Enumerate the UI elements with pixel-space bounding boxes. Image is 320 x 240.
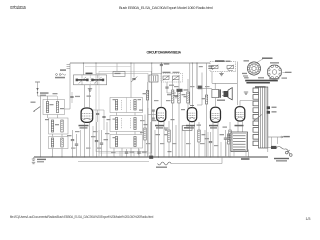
valve V2 IF amplifier (157, 108, 166, 122)
label V3 (186, 125, 195, 129)
misc value labels 2 (45, 96, 227, 153)
smoothing choke / dropper block (231, 132, 248, 152)
resistor R13 (178, 79, 186, 157)
variable capacitor VC1 (76, 75, 89, 85)
wire secondary top rail (85, 65, 131, 67)
label TO AERIAL line (257, 58, 273, 63)
resistor R14 (184, 79, 190, 110)
transformer tap wire (254, 115, 262, 121)
capacitor C33 (100, 130, 108, 157)
capacitor C10 on AVC line (160, 63, 170, 74)
label V5 (235, 125, 244, 127)
capacitor C12 (199, 66, 203, 67)
valve base diagram B1 (247, 62, 261, 76)
valve V1 ECH35 frequency changer (81, 108, 93, 122)
oscillator coil box L6/L7 (110, 116, 143, 132)
wire HT output (268, 136, 290, 152)
capacitor C31 (75, 134, 78, 157)
valve V4 output pentode (211, 107, 221, 122)
wave-change switch S1 (31, 102, 41, 112)
loudspeaker LS1 (222, 88, 232, 100)
output transformer T2 (212, 89, 221, 97)
wire V1 pins (85, 85, 90, 157)
blob R16 (177, 89, 189, 92)
wire volume to output stage (197, 62, 237, 106)
resistor R20 (140, 115, 146, 158)
misc value labels (71, 86, 219, 153)
valve V3 detector/AVC (187, 108, 196, 122)
wire extra verticals (81, 122, 247, 157)
label V4 (209, 125, 218, 129)
screening box around oscillator coils (96, 71, 151, 153)
label V1 (79, 125, 89, 129)
valve V5 rectifier (235, 107, 245, 121)
wire V4 pins (213, 98, 218, 157)
antenna input A1 (35, 82, 49, 96)
wire AVC rail (152, 63, 203, 105)
capacitor C16 (53, 92, 81, 103)
dial lamp connectors P1 P2 (267, 106, 277, 113)
resistor R22 (198, 122, 206, 157)
capacitor C37 (205, 132, 213, 157)
wire coil box returns (48, 115, 63, 158)
wire gang feeds (83, 63, 96, 89)
caption under base diagrams (244, 77, 287, 87)
label L2 S9 (241, 158, 250, 160)
wire V5 pins (238, 101, 259, 133)
capacitor C34 (125, 149, 134, 157)
volume control dashed box (208, 60, 235, 71)
schematic title CIRCUIT DIAGRAM 6B13A (147, 50, 182, 54)
label V2 (155, 125, 164, 129)
resistor R24 (227, 134, 229, 157)
resistor R21 (164, 121, 170, 157)
aerial socket / fuse F1 (55, 74, 66, 79)
mains switch blob on bus (149, 156, 159, 159)
mains input symbol (32, 157, 46, 164)
mains flex and plug (277, 147, 293, 157)
capacitor C14 (93, 110, 106, 130)
label speaker (217, 100, 225, 101)
valve base diagram B2 (268, 65, 282, 79)
trimmer block in screen box (113, 63, 137, 82)
tuning gang dashed box VC1/VC2 (74, 73, 107, 85)
mains transformer T1 core (259, 87, 268, 148)
wire chassis bus (34, 156, 268, 158)
resistor R23 (229, 122, 231, 157)
capacitor C38 (220, 130, 228, 157)
wire HT+ top bus (70, 62, 210, 64)
aerial coil box L5 (49, 137, 69, 149)
aerial terminal ticks (60, 65, 70, 71)
ground symbols (88, 89, 248, 131)
wire V2 pins (148, 63, 164, 157)
potentiometer VR1 (212, 65, 219, 70)
svg-text:CIRCUIT DIAGRAM 6B13A: CIRCUIT DIAGRAM 6B13A (147, 50, 182, 54)
wire misc verticals (107, 122, 249, 157)
aerial coil box L1/L2 (43, 96, 65, 115)
capacitor C13 (165, 82, 176, 93)
label AC mains (274, 158, 289, 162)
ground under volume box (219, 72, 223, 76)
labels around base B2 (270, 62, 292, 73)
wire V3 pins and top cap (190, 63, 195, 157)
resistor R12 (167, 79, 174, 157)
resistor R15 (202, 63, 208, 157)
wire left rail drop (65, 63, 71, 109)
aerial coil box L3/L4 (49, 118, 69, 134)
wire aerial down lead (38, 96, 58, 157)
IF transformer IFT1 (110, 98, 143, 113)
variable capacitor VC2 (91, 75, 104, 85)
can capacitor C36 (183, 126, 193, 131)
capacitor C32 (91, 122, 98, 157)
labels around base B1 (242, 60, 249, 76)
resistor R9 (143, 82, 149, 157)
capacitor C35 (137, 149, 146, 157)
junction dots on bus (40, 156, 249, 157)
tone capacitor C20 (227, 65, 234, 71)
capacitor C30 (67, 130, 74, 157)
on/off switch S2 (268, 146, 277, 149)
oscillator coil box L8 (110, 135, 143, 149)
wire screen feeds (152, 63, 202, 105)
mains transformer T1 windings (253, 88, 259, 146)
switch box S3 dashed (161, 72, 183, 82)
junction dots top bus (83, 62, 198, 63)
heater dropper coil L9 (78, 157, 222, 168)
capacitor C15 grid V2 (148, 108, 155, 157)
can capacitor C11 (149, 63, 158, 157)
wire oscillator box drops (114, 63, 139, 157)
